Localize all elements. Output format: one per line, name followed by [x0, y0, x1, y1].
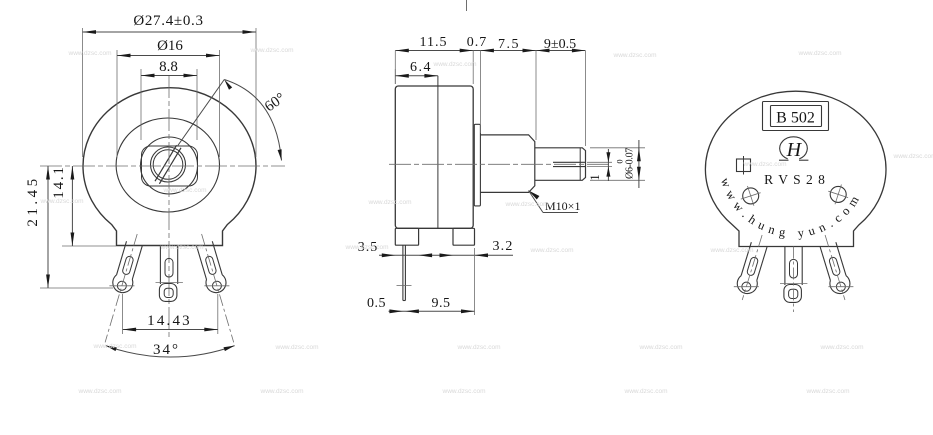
- rear terminal left: [733, 232, 772, 303]
- side view shaft: [535, 148, 586, 181]
- svg-text:34°: 34°: [153, 342, 180, 358]
- dimension 60°: [178, 80, 225, 147]
- svg-text:0: 0: [615, 159, 625, 163]
- svg-text:7.5: 7.5: [498, 37, 520, 52]
- front view shaft inner circle: [153, 150, 183, 180]
- svg-text:H: H: [786, 139, 803, 161]
- front terminal left: [96, 231, 147, 345]
- svg-text:M10×1: M10×1: [545, 199, 580, 213]
- front view vertical centerline: [168, 76, 170, 338]
- svg-text:www.dzsc.com: www.dzsc.com: [820, 344, 864, 351]
- svg-text:9±0.5: 9±0.5: [544, 37, 576, 52]
- dimension Ø16: [116, 50, 118, 157]
- svg-text:www.dzsc.com: www.dzsc.com: [68, 50, 112, 57]
- front terminal center: [159, 246, 161, 285]
- svg-text:www.dzsc.com: www.dzsc.com: [806, 388, 850, 395]
- side view left foot: [395, 228, 418, 245]
- dimension 8.8: [140, 69, 142, 140]
- screw left: [743, 188, 759, 204]
- side view bushing: [480, 135, 534, 193]
- svg-text:www.dzsc.com: www.dzsc.com: [275, 344, 319, 351]
- dimension 14.43: [122, 294, 124, 334]
- dimension 14.1: [62, 245, 116, 247]
- svg-text:www.dzsc.com: www.dzsc.com: [505, 201, 549, 208]
- dimension 1 (slot): [587, 161, 612, 163]
- svg-text:www.dzsc.com: www.dzsc.com: [624, 388, 668, 395]
- front view shaft outer circle: [151, 147, 186, 182]
- svg-text:www.dzsc.com: www.dzsc.com: [93, 343, 137, 350]
- svg-text:14.43: 14.43: [147, 313, 192, 329]
- svg-text:21.45: 21.45: [25, 175, 41, 226]
- svg-text:www.dzsc.com: www.dzsc.com: [442, 388, 486, 395]
- svg-text:www.dzsc.com: www.dzsc.com: [160, 244, 204, 251]
- svg-text:www.dzsc.com: www.dzsc.com: [457, 344, 501, 351]
- side view terminal pin: [402, 245, 404, 300]
- side view shaft end ring: [579, 148, 581, 181]
- dimension 0.5 and 9.5: [474, 248, 476, 315]
- logo H (omega): [780, 137, 808, 159]
- thread label M10×1: [529, 191, 540, 200]
- dimension 34°: [106, 346, 235, 357]
- side view pin tick: [397, 285, 412, 287]
- svg-text:www.dzsc.com: www.dzsc.com: [78, 388, 122, 395]
- svg-text:www.dzsc.com: www.dzsc.com: [613, 52, 657, 59]
- svg-text:Ø6-0.07: Ø6-0.07: [625, 148, 636, 179]
- svg-text:14.1: 14.1: [51, 165, 67, 198]
- svg-text:9.5: 9.5: [432, 296, 451, 311]
- svg-text:www.dzsc.com: www.dzsc.com: [710, 247, 754, 254]
- front view square boss (8.8): [142, 146, 198, 186]
- front view bushing circle: [141, 137, 198, 194]
- svg-text:3.2: 3.2: [492, 239, 513, 254]
- svg-text:www.dzsc.com: www.dzsc.com: [798, 50, 842, 57]
- side view body: [395, 86, 473, 228]
- svg-text:R V S 2 8: R V S 2 8: [764, 172, 826, 187]
- rear terminal right: [816, 232, 855, 303]
- svg-text:0.5: 0.5: [367, 296, 386, 311]
- rivet square: [737, 159, 751, 172]
- svg-text:1: 1: [588, 174, 602, 180]
- dimension 3.5 and 3.2: [379, 254, 513, 256]
- front view shaft slot: [159, 148, 181, 184]
- dimension chain 11.5 / 0.7 / 7.5 / 9±0.5: [395, 50, 585, 52]
- svg-text:www.dzsc.com: www.dzsc.com: [368, 199, 412, 206]
- svg-text:www.dzsc.com: www.dzsc.com: [163, 187, 207, 194]
- svg-text:11.5: 11.5: [420, 35, 448, 50]
- svg-text:www.dzsc.com: www.dzsc.com: [260, 388, 304, 395]
- side view body inner seam: [437, 76, 439, 229]
- front view face circle Ø16: [116, 118, 219, 212]
- svg-text:6.4: 6.4: [410, 60, 432, 75]
- svg-text:Ø27.4±0.3: Ø27.4±0.3: [133, 13, 203, 29]
- front view horizontal centerline: [40, 165, 285, 167]
- svg-text:www.dzsc.com: www.dzsc.com: [40, 198, 84, 205]
- dimension 6.4: [394, 69, 396, 84]
- dimension Ø6 0/-0.07: [590, 147, 645, 149]
- dimension Ø27.4±0.3: [82, 28, 84, 157]
- marking box inner: [771, 106, 822, 127]
- top centerline mark: [466, 0, 468, 11]
- side view cover plate: [474, 124, 480, 206]
- svg-text:Ø16: Ø16: [157, 38, 183, 54]
- svg-text:8.8: 8.8: [159, 59, 178, 75]
- svg-text:www.dzsc.com: www.dzsc.com: [893, 153, 933, 160]
- svg-text:0.7: 0.7: [467, 35, 488, 50]
- svg-text:www.dzsc.com: www.dzsc.com: [639, 344, 683, 351]
- svg-text:60°: 60°: [262, 90, 288, 115]
- side view right foot: [453, 228, 475, 245]
- marking box outer: [763, 102, 829, 131]
- front terminal right: [192, 231, 243, 345]
- front view body outline: [83, 88, 256, 246]
- rear terminal center: [784, 247, 786, 286]
- rear view body outline: [705, 91, 886, 246]
- svg-text:www.dzsc.com: www.dzsc.com: [345, 244, 389, 251]
- side view centerline: [389, 163, 612, 165]
- svg-text:B 502: B 502: [776, 110, 815, 127]
- side view shaft slot: [553, 161, 586, 163]
- svg-text:www.dzsc.com: www.dzsc.com: [433, 61, 477, 68]
- screw right: [830, 186, 846, 202]
- svg-text:www.dzsc.com: www.dzsc.com: [530, 247, 574, 254]
- dimension 21.45: [40, 287, 113, 289]
- svg-text:www.dzsc.com: www.dzsc.com: [250, 47, 294, 54]
- svg-text:www.dzsc.com: www.dzsc.com: [743, 161, 787, 168]
